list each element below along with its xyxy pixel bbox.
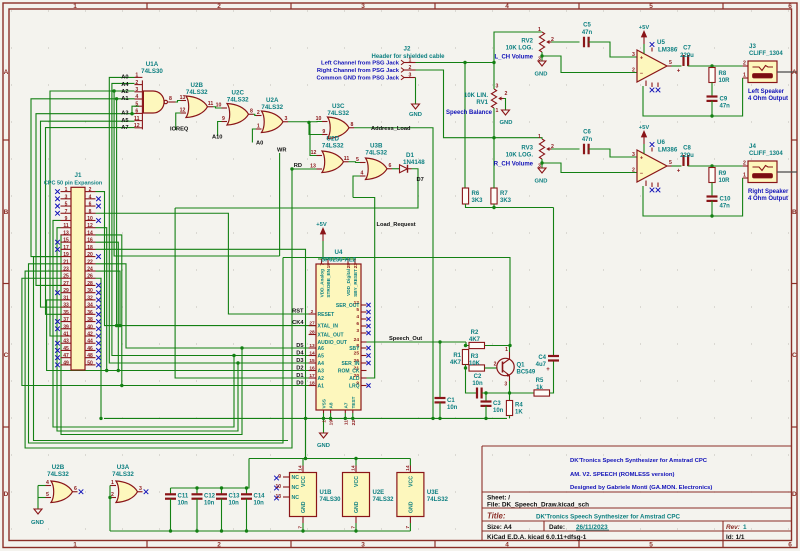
svg-text:LM386: LM386 bbox=[658, 47, 678, 54]
svg-text:U3E: U3E bbox=[427, 490, 439, 496]
svg-text:GND: GND bbox=[408, 501, 414, 513]
svg-text:U2E: U2E bbox=[373, 490, 385, 496]
svg-text:23: 23 bbox=[353, 263, 359, 269]
svg-text:+5V: +5V bbox=[639, 125, 650, 131]
svg-text:74LS32: 74LS32 bbox=[365, 149, 387, 156]
svg-text:C10: C10 bbox=[720, 197, 732, 203]
svg-text:18: 18 bbox=[309, 381, 315, 387]
svg-text:9: 9 bbox=[278, 474, 281, 480]
svg-text:30: 30 bbox=[87, 288, 93, 294]
svg-text:+5V: +5V bbox=[639, 25, 650, 31]
svg-text:6: 6 bbox=[389, 163, 392, 169]
svg-text:VDD_Digital: VDD_Digital bbox=[346, 269, 351, 296]
svg-text:3: 3 bbox=[361, 542, 365, 549]
svg-text:Title:: Title: bbox=[487, 512, 506, 521]
svg-text:48: 48 bbox=[87, 353, 93, 359]
svg-text:39: 39 bbox=[63, 324, 69, 330]
svg-text:6: 6 bbox=[89, 202, 92, 208]
svg-text:1: 1 bbox=[743, 173, 746, 179]
svg-text:2: 2 bbox=[111, 492, 114, 498]
svg-text:28: 28 bbox=[309, 330, 315, 336]
svg-text:3: 3 bbox=[496, 84, 499, 90]
svg-text:47: 47 bbox=[63, 353, 69, 359]
svg-text:10: 10 bbox=[216, 103, 222, 109]
svg-text:2: 2 bbox=[743, 61, 746, 67]
svg-text:18: 18 bbox=[87, 245, 93, 251]
svg-text:Speech Balance: Speech Balance bbox=[446, 110, 493, 116]
svg-text:C: C bbox=[792, 352, 797, 359]
svg-text:VCC: VCC bbox=[301, 476, 307, 487]
svg-text:25: 25 bbox=[354, 351, 360, 357]
svg-text:25: 25 bbox=[63, 274, 69, 280]
svg-text:1: 1 bbox=[743, 73, 746, 79]
svg-text:Q1: Q1 bbox=[517, 363, 526, 369]
svg-text:47n: 47n bbox=[720, 204, 731, 210]
svg-text:11: 11 bbox=[208, 101, 214, 107]
svg-text:4 Ohm Output: 4 Ohm Output bbox=[748, 96, 788, 102]
svg-text:5: 5 bbox=[669, 60, 672, 66]
svg-text:A10: A10 bbox=[212, 135, 222, 141]
svg-text:CPC 50 pin Expansion: CPC 50 pin Expansion bbox=[44, 181, 103, 187]
svg-text:4 Ohm Output: 4 Ohm Output bbox=[748, 196, 788, 202]
svg-text:A: A bbox=[792, 69, 797, 76]
svg-text:14: 14 bbox=[405, 465, 411, 471]
svg-text:23: 23 bbox=[63, 267, 69, 273]
svg-text:A0: A0 bbox=[256, 141, 263, 147]
svg-text:13: 13 bbox=[309, 343, 315, 349]
svg-text:D4: D4 bbox=[296, 351, 304, 357]
svg-text:XTAL_OUT: XTAL_OUT bbox=[318, 332, 344, 338]
svg-text:49: 49 bbox=[63, 360, 69, 366]
svg-text:Date:: Date: bbox=[549, 524, 565, 531]
svg-text:TEST: TEST bbox=[351, 396, 356, 408]
svg-text:2: 2 bbox=[217, 3, 221, 10]
svg-text:74LS32: 74LS32 bbox=[47, 471, 69, 478]
svg-text:A2: A2 bbox=[121, 89, 128, 95]
svg-text:Rev:: Rev: bbox=[726, 524, 740, 531]
svg-text:GND: GND bbox=[535, 72, 548, 78]
svg-text:R8: R8 bbox=[719, 71, 727, 77]
svg-text:B: B bbox=[4, 209, 9, 216]
svg-text:D5: D5 bbox=[296, 343, 303, 349]
svg-text:3: 3 bbox=[285, 116, 288, 122]
svg-text:3K3: 3K3 bbox=[500, 198, 512, 204]
svg-text:2: 2 bbox=[257, 110, 260, 116]
svg-text:C14: C14 bbox=[254, 494, 266, 500]
svg-text:12: 12 bbox=[134, 123, 140, 129]
svg-text:2: 2 bbox=[505, 91, 508, 97]
svg-text:3: 3 bbox=[409, 72, 412, 78]
svg-text:R6: R6 bbox=[472, 191, 480, 197]
svg-text:NC: NC bbox=[292, 475, 300, 481]
svg-text:R3: R3 bbox=[471, 354, 479, 360]
svg-text:+: + bbox=[640, 156, 643, 162]
svg-text:A3: A3 bbox=[121, 111, 128, 117]
svg-text:C: C bbox=[4, 352, 9, 359]
svg-text:4: 4 bbox=[89, 194, 92, 200]
svg-text:5: 5 bbox=[669, 160, 672, 166]
svg-text:U1B: U1B bbox=[320, 490, 333, 496]
svg-text:5: 5 bbox=[135, 101, 138, 107]
svg-text:J4: J4 bbox=[749, 143, 756, 150]
svg-text:19: 19 bbox=[329, 420, 335, 426]
svg-text:Designed by Gabriele Monti (GA: Designed by Gabriele Monti (GA.MON. Elec… bbox=[570, 485, 712, 491]
svg-text:3: 3 bbox=[65, 194, 68, 200]
svg-text:3: 3 bbox=[538, 164, 541, 170]
svg-text:3: 3 bbox=[356, 328, 359, 334]
svg-text:D1: D1 bbox=[406, 152, 414, 159]
svg-text:46: 46 bbox=[87, 346, 93, 352]
svg-text:14: 14 bbox=[309, 351, 315, 357]
svg-text:C8: C8 bbox=[683, 146, 691, 152]
svg-text:220u: 220u bbox=[680, 53, 694, 59]
svg-text:4: 4 bbox=[135, 94, 138, 100]
svg-text:16: 16 bbox=[309, 366, 315, 372]
svg-text:U6: U6 bbox=[657, 139, 665, 146]
svg-text:3K3: 3K3 bbox=[472, 198, 484, 204]
svg-text:40: 40 bbox=[87, 324, 93, 330]
svg-text:20: 20 bbox=[87, 252, 93, 258]
svg-text:A7: A7 bbox=[121, 125, 128, 131]
svg-text:10n: 10n bbox=[178, 501, 189, 507]
svg-text:19: 19 bbox=[326, 263, 332, 269]
svg-text:D0: D0 bbox=[296, 381, 303, 387]
svg-text:74LS32: 74LS32 bbox=[322, 142, 344, 149]
svg-text:A: A bbox=[4, 69, 9, 76]
svg-text:+: + bbox=[640, 56, 643, 62]
svg-text:10n: 10n bbox=[204, 501, 215, 507]
svg-text:12: 12 bbox=[180, 108, 186, 114]
svg-text:10K LOG.: 10K LOG. bbox=[506, 153, 534, 159]
svg-text:2: 2 bbox=[217, 542, 221, 549]
svg-text:4: 4 bbox=[356, 314, 359, 320]
svg-text:R4: R4 bbox=[515, 403, 523, 409]
svg-text:15: 15 bbox=[63, 238, 69, 244]
svg-text:CK4: CK4 bbox=[292, 320, 304, 326]
svg-text:10: 10 bbox=[275, 484, 281, 490]
svg-text:GND: GND bbox=[500, 120, 513, 126]
svg-text:6: 6 bbox=[356, 321, 359, 327]
svg-text:16: 16 bbox=[87, 238, 93, 244]
svg-text:11: 11 bbox=[344, 156, 350, 162]
svg-text:2: 2 bbox=[632, 168, 635, 174]
svg-text:19: 19 bbox=[63, 252, 69, 258]
svg-text:6: 6 bbox=[788, 542, 792, 549]
svg-text:C9: C9 bbox=[720, 97, 728, 103]
svg-text:C7: C7 bbox=[683, 46, 691, 52]
svg-text:4K7: 4K7 bbox=[469, 337, 481, 343]
svg-text:A7: A7 bbox=[343, 402, 348, 408]
svg-text:IOREQ: IOREQ bbox=[170, 127, 189, 133]
svg-text:47n: 47n bbox=[582, 30, 593, 36]
svg-text:3: 3 bbox=[538, 57, 541, 63]
svg-text:RV3: RV3 bbox=[521, 146, 533, 152]
svg-text:A2: A2 bbox=[318, 376, 325, 382]
svg-text:5: 5 bbox=[649, 542, 653, 549]
svg-text:26: 26 bbox=[87, 274, 93, 280]
svg-text:1: 1 bbox=[538, 134, 541, 140]
svg-text:5: 5 bbox=[356, 307, 359, 313]
svg-text:14: 14 bbox=[351, 465, 357, 471]
svg-text:14: 14 bbox=[87, 230, 93, 236]
svg-text:47n: 47n bbox=[720, 104, 731, 110]
svg-text:A1: A1 bbox=[318, 383, 325, 389]
svg-text:A4: A4 bbox=[121, 82, 129, 88]
svg-text:37: 37 bbox=[63, 317, 69, 323]
svg-text:+: + bbox=[546, 367, 550, 373]
svg-text:32: 32 bbox=[87, 295, 93, 301]
svg-text:2: 2 bbox=[551, 37, 554, 43]
svg-text:74LS30: 74LS30 bbox=[320, 497, 342, 503]
svg-text:2: 2 bbox=[743, 161, 746, 167]
svg-text:C13: C13 bbox=[229, 494, 241, 500]
svg-text:10R: 10R bbox=[719, 178, 731, 184]
svg-text:DK'Tronics Speech Synthesizer: DK'Tronics Speech Synthesizer for Amstra… bbox=[536, 513, 680, 520]
svg-text:1: 1 bbox=[257, 124, 260, 130]
svg-text:RESET: RESET bbox=[318, 312, 335, 318]
svg-text:28: 28 bbox=[87, 281, 93, 287]
svg-text:U3A: U3A bbox=[117, 464, 130, 471]
svg-text:11: 11 bbox=[134, 116, 140, 122]
svg-text:−: − bbox=[640, 71, 643, 77]
svg-text:1: 1 bbox=[409, 57, 412, 63]
svg-text:42: 42 bbox=[87, 332, 93, 338]
svg-text:1: 1 bbox=[496, 108, 499, 114]
svg-text:5: 5 bbox=[649, 3, 653, 10]
svg-text:13: 13 bbox=[180, 95, 186, 101]
svg-text:VSS: VSS bbox=[322, 399, 327, 408]
svg-text:C3: C3 bbox=[493, 401, 501, 407]
svg-text:A4: A4 bbox=[318, 361, 325, 367]
svg-text:17: 17 bbox=[309, 373, 315, 379]
svg-text:NC: NC bbox=[292, 495, 300, 501]
svg-text:8: 8 bbox=[250, 109, 253, 115]
svg-text:NC: NC bbox=[292, 485, 300, 491]
svg-text:10R: 10R bbox=[719, 78, 731, 84]
svg-text:45: 45 bbox=[63, 346, 69, 352]
svg-text:10K: 10K bbox=[469, 361, 481, 367]
svg-text:D: D bbox=[4, 491, 9, 498]
svg-text:34: 34 bbox=[87, 303, 93, 309]
svg-text:21: 21 bbox=[63, 259, 69, 265]
svg-text:13: 13 bbox=[63, 230, 69, 236]
svg-text:17: 17 bbox=[63, 245, 69, 251]
svg-text:7: 7 bbox=[405, 526, 411, 529]
svg-text:A1: A1 bbox=[121, 96, 128, 102]
svg-text:50: 50 bbox=[87, 360, 93, 366]
svg-text:STROBE_EN: STROBE_EN bbox=[326, 268, 331, 297]
svg-text:33: 33 bbox=[63, 303, 69, 309]
svg-text:10K LIN.: 10K LIN. bbox=[464, 93, 488, 99]
svg-text:1: 1 bbox=[743, 524, 747, 531]
svg-text:3: 3 bbox=[504, 382, 507, 388]
svg-text:7: 7 bbox=[65, 209, 68, 215]
svg-text:Speech_Out: Speech_Out bbox=[389, 336, 422, 342]
svg-text:74LS32: 74LS32 bbox=[427, 497, 449, 503]
svg-text:GND: GND bbox=[301, 501, 307, 513]
svg-text:4: 4 bbox=[505, 542, 509, 549]
svg-text:6: 6 bbox=[788, 3, 792, 10]
svg-text:Left Speaker: Left Speaker bbox=[748, 89, 785, 95]
svg-text:Right Speaker: Right Speaker bbox=[748, 189, 789, 195]
svg-text:+: + bbox=[677, 69, 681, 75]
svg-text:B: B bbox=[792, 209, 797, 216]
svg-text:GND: GND bbox=[354, 501, 360, 513]
svg-text:2: 2 bbox=[494, 362, 497, 368]
svg-text:3: 3 bbox=[632, 152, 635, 158]
svg-text:RV2: RV2 bbox=[521, 39, 533, 45]
svg-text:1: 1 bbox=[111, 480, 114, 486]
svg-text:24: 24 bbox=[87, 267, 93, 273]
svg-text:15: 15 bbox=[309, 358, 315, 364]
svg-text:9: 9 bbox=[322, 129, 325, 135]
svg-text:GND: GND bbox=[31, 520, 44, 526]
svg-text:D1: D1 bbox=[296, 373, 303, 379]
svg-text:U2B: U2B bbox=[52, 464, 65, 471]
svg-text:R7: R7 bbox=[500, 191, 508, 197]
svg-text:R2: R2 bbox=[471, 330, 479, 336]
svg-text:Size: A4: Size: A4 bbox=[487, 524, 512, 531]
svg-text:C6: C6 bbox=[583, 130, 591, 136]
svg-text:2: 2 bbox=[89, 187, 92, 193]
svg-text:SP0256-AL2: SP0256-AL2 bbox=[321, 258, 356, 264]
svg-text:+: + bbox=[677, 169, 681, 175]
svg-text:38: 38 bbox=[87, 317, 93, 323]
svg-text:KiCad E.D.A. kicad 6.0.11+dfs: KiCad E.D.A. kicad 6.0.11+dfsg-1 bbox=[487, 534, 587, 541]
svg-text:A0: A0 bbox=[121, 75, 128, 81]
svg-text:3: 3 bbox=[361, 3, 365, 10]
svg-text:43: 43 bbox=[63, 339, 69, 345]
svg-text:SBY_RESET: SBY_RESET bbox=[353, 269, 358, 297]
svg-text:1: 1 bbox=[538, 27, 541, 33]
svg-text:D7: D7 bbox=[417, 177, 424, 183]
svg-text:GND: GND bbox=[317, 443, 330, 449]
svg-text:C4: C4 bbox=[538, 355, 546, 361]
svg-text:4K7: 4K7 bbox=[450, 360, 462, 366]
svg-text:Address_Load: Address_Load bbox=[371, 126, 411, 132]
svg-text:R5: R5 bbox=[536, 378, 544, 384]
svg-text:10n: 10n bbox=[447, 405, 458, 411]
svg-text:74LS30: 74LS30 bbox=[141, 68, 163, 75]
svg-text:J3: J3 bbox=[749, 43, 756, 50]
svg-text:36: 36 bbox=[87, 310, 93, 316]
svg-text:11: 11 bbox=[343, 420, 349, 425]
svg-text:1N4148: 1N4148 bbox=[403, 159, 425, 166]
svg-text:4: 4 bbox=[505, 3, 509, 10]
svg-text:A3: A3 bbox=[318, 368, 325, 374]
svg-text:Sheet: /: Sheet: / bbox=[487, 495, 510, 502]
svg-text:AUDIO_OUT: AUDIO_OUT bbox=[318, 340, 347, 346]
svg-text:+5V: +5V bbox=[316, 222, 327, 228]
svg-text:LM386: LM386 bbox=[658, 147, 678, 154]
svg-text:22: 22 bbox=[351, 420, 357, 426]
svg-text:12: 12 bbox=[87, 223, 93, 229]
svg-text:5: 5 bbox=[356, 157, 359, 163]
svg-text:R_CH Volume: R_CH Volume bbox=[494, 162, 534, 168]
svg-text:7: 7 bbox=[298, 526, 304, 529]
svg-text:5: 5 bbox=[65, 202, 68, 208]
svg-text:2: 2 bbox=[409, 65, 412, 71]
svg-text:13: 13 bbox=[275, 494, 281, 500]
svg-text:D: D bbox=[792, 491, 797, 498]
svg-text:VDD_Analog: VDD_Analog bbox=[320, 269, 325, 298]
svg-text:XTAL_IN: XTAL_IN bbox=[318, 323, 339, 329]
svg-text:VCC: VCC bbox=[408, 476, 414, 487]
svg-text:C11: C11 bbox=[178, 494, 189, 500]
svg-text:31: 31 bbox=[63, 295, 69, 301]
svg-text:U4: U4 bbox=[335, 249, 343, 256]
svg-text:RST: RST bbox=[292, 308, 304, 314]
svg-text:11: 11 bbox=[63, 223, 69, 229]
svg-text:RV1: RV1 bbox=[476, 100, 488, 106]
svg-text:Id: 1/1: Id: 1/1 bbox=[726, 534, 745, 541]
svg-text:L_CH Volume: L_CH Volume bbox=[494, 55, 533, 61]
svg-text:41: 41 bbox=[63, 332, 69, 338]
svg-text:Right Channel from PSG Jack: Right Channel from PSG Jack bbox=[317, 68, 400, 74]
svg-text:3: 3 bbox=[135, 87, 138, 93]
svg-text:10n: 10n bbox=[229, 501, 240, 507]
svg-text:1: 1 bbox=[322, 420, 328, 423]
svg-text:A6: A6 bbox=[318, 346, 325, 352]
svg-text:1: 1 bbox=[135, 73, 138, 79]
svg-text:7: 7 bbox=[320, 263, 326, 266]
svg-text:27: 27 bbox=[309, 321, 315, 327]
svg-text:35: 35 bbox=[63, 310, 69, 316]
svg-text:C1: C1 bbox=[447, 398, 455, 404]
svg-text:A5: A5 bbox=[121, 118, 128, 124]
svg-text:2: 2 bbox=[135, 80, 138, 86]
svg-text:CLIFF_1304: CLIFF_1304 bbox=[749, 51, 783, 57]
svg-text:26/11/2023: 26/11/2023 bbox=[576, 524, 608, 531]
svg-text:GND: GND bbox=[409, 112, 422, 118]
svg-text:7: 7 bbox=[351, 526, 357, 529]
svg-text:22: 22 bbox=[87, 259, 93, 265]
svg-text:24: 24 bbox=[354, 337, 360, 343]
svg-text:10: 10 bbox=[87, 216, 93, 222]
svg-text:10n: 10n bbox=[254, 501, 265, 507]
svg-text:220u: 220u bbox=[680, 153, 694, 159]
svg-text:1k: 1k bbox=[536, 385, 543, 391]
svg-text:4u7: 4u7 bbox=[536, 362, 547, 368]
svg-text:BC549: BC549 bbox=[517, 370, 536, 376]
svg-text:4: 4 bbox=[361, 171, 364, 177]
svg-text:AM. V2. SPEECH (ROMLESS versio: AM. V2. SPEECH (ROMLESS version) bbox=[570, 472, 674, 478]
svg-text:A5: A5 bbox=[318, 353, 325, 359]
svg-text:C5: C5 bbox=[583, 23, 591, 29]
svg-text:1: 1 bbox=[505, 347, 508, 353]
svg-text:4: 4 bbox=[46, 480, 49, 486]
svg-text:WR: WR bbox=[277, 148, 286, 154]
svg-text:Load_Request: Load_Request bbox=[377, 222, 416, 228]
svg-text:8: 8 bbox=[89, 209, 92, 215]
svg-text:1: 1 bbox=[73, 3, 77, 10]
svg-text:74LS32: 74LS32 bbox=[261, 104, 283, 111]
svg-text:D2: D2 bbox=[296, 366, 303, 372]
svg-text:File: DK_Speech_Draw.kicad_sch: File: DK_Speech_Draw.kicad_sch bbox=[487, 502, 589, 509]
svg-text:2: 2 bbox=[632, 68, 635, 74]
svg-text:8: 8 bbox=[169, 96, 172, 102]
svg-text:74LS32: 74LS32 bbox=[227, 96, 249, 103]
svg-text:74LS32: 74LS32 bbox=[327, 110, 349, 117]
svg-text:29: 29 bbox=[63, 288, 69, 294]
svg-text:74LS32: 74LS32 bbox=[373, 497, 395, 503]
svg-text:A8: A8 bbox=[329, 402, 334, 408]
svg-text:C12: C12 bbox=[204, 494, 216, 500]
svg-text:25: 25 bbox=[346, 263, 352, 269]
svg-text:9: 9 bbox=[65, 216, 68, 222]
svg-text:RD: RD bbox=[294, 163, 302, 169]
svg-text:1K: 1K bbox=[515, 410, 523, 416]
